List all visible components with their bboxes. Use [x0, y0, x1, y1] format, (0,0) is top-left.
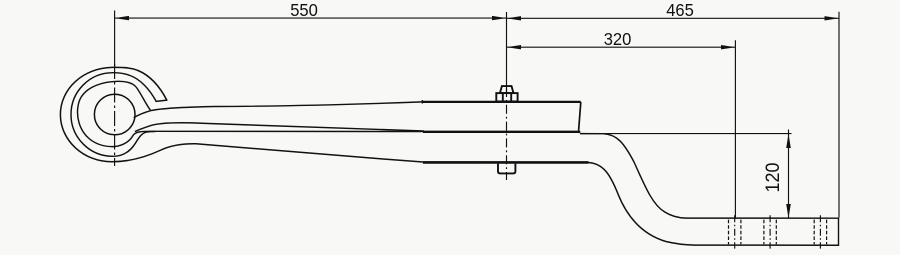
svg-text:120: 120 [761, 163, 783, 193]
svg-text:320: 320 [604, 28, 632, 49]
svg-text:465: 465 [666, 0, 694, 20]
svg-text:550: 550 [290, 0, 318, 20]
